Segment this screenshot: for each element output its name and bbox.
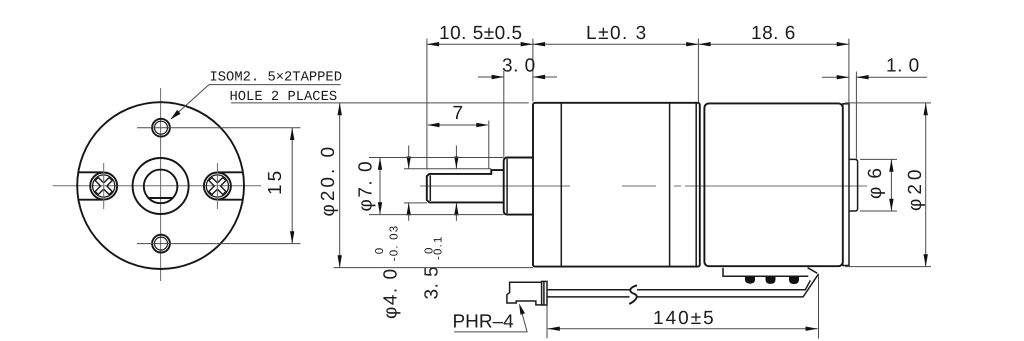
side view axis centerline bbox=[420, 185, 867, 187]
right screw crosshair bbox=[216, 163, 218, 209]
boss chamfer inner line bbox=[506, 159, 508, 214]
right screw slot bbox=[217, 171, 242, 173]
terminal pin 2 bbox=[766, 276, 776, 284]
dim phi20 extensions bbox=[845, 102, 931, 104]
svg-text:φ6: φ6 bbox=[865, 160, 886, 199]
dim phi4 up arrow bbox=[407, 203, 411, 215]
right screw head outer bbox=[204, 173, 231, 200]
PHR-4 leader arrowhead bbox=[519, 303, 525, 314]
gearbox front section line bbox=[560, 103, 562, 266]
D-hole flat chord bbox=[149, 197, 172, 199]
dim row1 line L bbox=[533, 43, 699, 45]
dim 3.5 line top tail bbox=[455, 146, 457, 169]
dim 3.5 line bottom tail bbox=[455, 203, 457, 221]
svg-text:φ4. 0: φ4. 0 bbox=[381, 267, 402, 319]
dim row1 line 10.5 bbox=[427, 43, 533, 45]
dim 15 arrows bbox=[290, 128, 294, 140]
dim 15 line bbox=[291, 128, 293, 244]
gearbox rear plate line bbox=[695, 103, 697, 266]
PHR-4 connector flange inner line bbox=[543, 281, 545, 305]
svg-text:φ20. 0: φ20. 0 bbox=[318, 144, 339, 217]
dim phi7 line bbox=[379, 158, 381, 215]
dim 15 top extension bbox=[137, 127, 301, 129]
motor body bbox=[704, 103, 842, 266]
ext line shaft tip bbox=[426, 39, 428, 170]
wire bundle top edge bbox=[547, 280, 810, 290]
ext line motor cap face bbox=[848, 39, 850, 104]
dim 3.0 right segment bbox=[533, 76, 557, 78]
shaft outline bbox=[427, 170, 504, 202]
dim phi6 line bbox=[890, 159, 892, 211]
terminal plate bbox=[723, 268, 808, 277]
motor rear cap bbox=[843, 104, 849, 266]
terminal plate right edge bbox=[808, 268, 818, 274]
dim phi20.0 line bbox=[339, 103, 341, 268]
svg-text:φ7. 0: φ7. 0 bbox=[356, 160, 377, 212]
dim phi20 line bbox=[925, 103, 927, 267]
dim 7 right extension bbox=[488, 121, 490, 170]
leader arrowhead bbox=[170, 110, 180, 120]
left screw head inner bbox=[93, 175, 115, 197]
dim 3.0 left segment bbox=[478, 76, 504, 78]
motor rear bearing boss bbox=[849, 159, 858, 211]
wire break symbol bbox=[630, 288, 638, 298]
left screw crosshair bbox=[103, 163, 105, 209]
bottom tapped hole outer bbox=[152, 235, 170, 253]
gearbox face outer circle bbox=[77, 102, 244, 269]
shaft D-hole circle bbox=[144, 170, 178, 204]
svg-text:1. 0: 1. 0 bbox=[886, 56, 920, 77]
svg-text:L±0. 3: L±0. 3 bbox=[586, 23, 648, 44]
dim 1.0 left segment bbox=[822, 76, 849, 78]
motor shaft boss bbox=[504, 158, 533, 215]
bottom tapped hole inner bbox=[155, 237, 168, 250]
phi20.0 bottom extension bbox=[334, 267, 534, 269]
gearbox body bbox=[533, 103, 700, 267]
dim phi4 down arrow bbox=[407, 157, 411, 169]
svg-text:15: 15 bbox=[265, 168, 286, 195]
dim phi4 line top tail bbox=[408, 146, 410, 169]
wire bundle bottom edge bbox=[547, 274, 819, 297]
svg-text:7: 7 bbox=[453, 103, 464, 124]
left screw phillips cross bbox=[90, 172, 118, 200]
ext line gearbox rear face bbox=[697, 39, 699, 102]
dim phi4 line bottom tail bbox=[408, 203, 410, 221]
dim 1.0 right segment bbox=[856, 76, 927, 78]
PHR-4 underline leader bbox=[454, 306, 527, 332]
phi4 top extension line bbox=[404, 168, 491, 170]
svg-text:φ20: φ20 bbox=[905, 166, 926, 211]
gearbox rear section line bbox=[669, 103, 671, 266]
dim phi6 extensions bbox=[860, 158, 897, 160]
dim 7 line bbox=[428, 124, 488, 126]
right screw head inner bbox=[206, 175, 228, 197]
ext line boss face bbox=[503, 71, 505, 157]
top tapped hole outer bbox=[152, 119, 170, 137]
centerline vertical front view bbox=[160, 88, 162, 281]
phi7 top extension bbox=[369, 157, 504, 159]
dim 140 right extension bbox=[818, 274, 820, 339]
right screw phillips cross bbox=[203, 172, 231, 200]
top tapped hole inner bbox=[155, 121, 168, 134]
svg-text:18. 6: 18. 6 bbox=[751, 23, 796, 44]
terminal pin 1 bbox=[745, 276, 755, 284]
dim 140 line bbox=[548, 328, 818, 330]
svg-text:140±5: 140±5 bbox=[653, 308, 716, 329]
svg-text:10. 5±0.5: 10. 5±0.5 bbox=[439, 23, 523, 44]
dim phi7 arrows bbox=[378, 158, 382, 170]
dim 15 bottom extension bbox=[137, 243, 301, 245]
shaft tip chamfer line bbox=[429, 175, 431, 201]
centerline horizontal front view bbox=[53, 185, 262, 187]
svg-text:3. 5: 3. 5 bbox=[422, 266, 443, 300]
dim row1 line 18.6 bbox=[698, 43, 849, 45]
left screw head outer bbox=[90, 173, 117, 200]
leader line to tapped hole bbox=[171, 85, 209, 119]
label underline 1 bbox=[209, 84, 341, 86]
hub boss circle bbox=[133, 158, 189, 214]
PHR-4 connector body bbox=[507, 282, 542, 305]
svg-text:ISOM2. 5×2TAPPED: ISOM2. 5×2TAPPED bbox=[210, 71, 342, 86]
dim 3.5 down arrow bbox=[454, 157, 458, 169]
left screw slot bbox=[79, 171, 104, 173]
PHR-4 connector flange bbox=[542, 281, 547, 305]
ext line rear boss face bbox=[855, 72, 857, 159]
ext line gearbox front face bbox=[532, 39, 534, 102]
label underline 2 / phi20 top extension line bbox=[231, 102, 529, 104]
phi4 bottom extension line bbox=[404, 202, 427, 204]
phi7 bottom extension bbox=[369, 214, 504, 216]
dim 3.5 up arrow bbox=[454, 203, 458, 215]
svg-text:PHR–4: PHR–4 bbox=[453, 312, 515, 333]
dim 140 left extension bbox=[546, 306, 548, 339]
svg-text:3. 0: 3. 0 bbox=[502, 56, 536, 77]
row1 arrows bbox=[427, 42, 439, 46]
dim 7 arrows bbox=[427, 123, 439, 127]
terminal pin 3 bbox=[789, 276, 799, 284]
